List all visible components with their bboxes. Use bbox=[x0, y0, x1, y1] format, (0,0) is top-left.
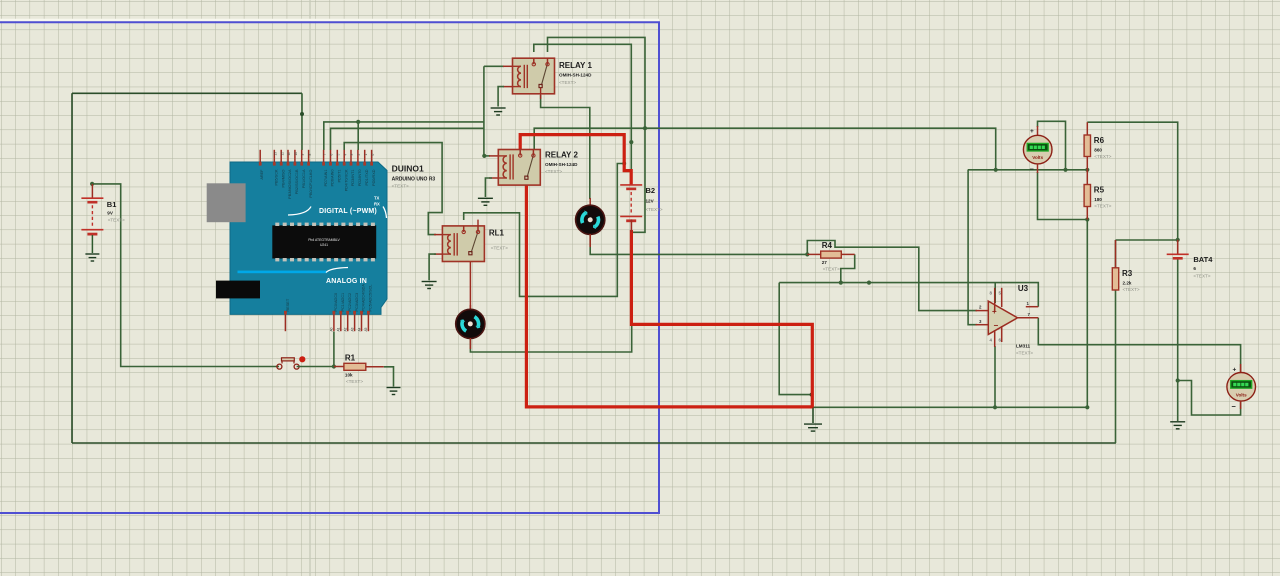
wire meter1 plus leg bbox=[1038, 121, 1066, 170]
svg-text:PD4/T0/XCK: PD4/T0/XCK bbox=[344, 169, 348, 191]
svg-text:PC4/ADC4/SDA: PC4/ADC4/SDA bbox=[362, 284, 366, 312]
svg-text:PB1/OC1A: PB1/OC1A bbox=[302, 169, 306, 188]
svg-text:A5: A5 bbox=[364, 327, 368, 331]
resistor R6 bbox=[1084, 135, 1090, 157]
svg-text:27: 27 bbox=[822, 260, 828, 265]
motor M2 bbox=[456, 309, 485, 338]
svg-text:Volts: Volts bbox=[1032, 155, 1043, 160]
wire R5 bottom vertical to gnd rail bbox=[1086, 220, 1088, 408]
svg-text:<TEXT>: <TEXT> bbox=[646, 207, 663, 212]
svg-text:6: 6 bbox=[330, 154, 334, 156]
R3 top pin bbox=[1115, 240, 1117, 268]
wire opamp pin1 net horizontal bbox=[779, 283, 1038, 307]
svg-text:Volts: Volts bbox=[1236, 392, 1247, 397]
svg-text:RX: RX bbox=[374, 202, 380, 207]
voltmeter2 bottom pin bbox=[1240, 401, 1242, 409]
wire opamp pin8 leg bbox=[994, 283, 996, 303]
svg-text:2.2k: 2.2k bbox=[1123, 280, 1132, 285]
svg-text:<TEXT>: <TEXT> bbox=[559, 80, 576, 85]
wire relay coil vertical at x484 bbox=[483, 66, 485, 156]
wire gnd rail horizontal bbox=[812, 406, 1087, 408]
motor M1 bbox=[570, 199, 611, 240]
svg-text:R4: R4 bbox=[822, 241, 833, 250]
voltmeter1 bottom pin bbox=[1037, 164, 1039, 173]
svg-text:PD2/INT0: PD2/INT0 bbox=[358, 170, 362, 187]
Arduino pin net tick labels bbox=[274, 152, 375, 332]
relay2 coil top pin stub bbox=[489, 155, 498, 157]
svg-text:<TEXT>: <TEXT> bbox=[1193, 274, 1210, 279]
junction R6/R5 bbox=[1085, 168, 1089, 172]
ground relay1 coil bbox=[491, 108, 506, 115]
ground B1 bbox=[85, 254, 99, 261]
svg-text:PB0/ICP1/CLKO: PB0/ICP1/CLKO bbox=[309, 169, 313, 197]
junction A0/button/R1 bbox=[332, 364, 336, 368]
svg-text:U3: U3 bbox=[1018, 284, 1029, 293]
svg-text:9V: 9V bbox=[107, 211, 114, 216]
junction meter2 minus bbox=[1176, 378, 1180, 382]
wire RL1 top pin zigzag to B2+ node bbox=[464, 164, 623, 297]
svg-text:0: 0 bbox=[371, 154, 375, 156]
junction green stub on red wire bbox=[622, 162, 626, 166]
svg-text:OMIH-SH-124D: OMIH-SH-124D bbox=[545, 162, 578, 167]
wire RL1 pole to motor2 bbox=[469, 256, 471, 310]
svg-text:A4: A4 bbox=[357, 327, 361, 331]
svg-text:LM311: LM311 bbox=[1016, 344, 1030, 349]
svg-text:R5: R5 bbox=[1094, 186, 1105, 195]
wire motor2 bottom to B2- rail bbox=[470, 326, 631, 352]
R5 top pin bbox=[1086, 170, 1088, 185]
svg-text:TX: TX bbox=[374, 196, 380, 201]
svg-text:DUINO1: DUINO1 bbox=[392, 164, 424, 174]
wire D2 up to D7 net bbox=[357, 122, 359, 150]
svg-text:860: 860 bbox=[1094, 148, 1102, 153]
battery BAT4 top pin bbox=[1177, 240, 1179, 255]
voltmeter VM2 bbox=[1227, 373, 1256, 402]
battery B1 top junction bbox=[90, 182, 94, 186]
relay1 coil top pin stub bbox=[503, 65, 513, 67]
ground BAT4 bbox=[1170, 422, 1185, 429]
battery B1 top pin bbox=[91, 184, 93, 198]
svg-text:−: − bbox=[1030, 165, 1035, 174]
svg-text:12: 12 bbox=[280, 152, 284, 156]
svg-text:RELAY 2: RELAY 2 bbox=[545, 151, 578, 160]
svg-text:5: 5 bbox=[337, 154, 341, 156]
wire R6 top to BAT4 bbox=[1087, 122, 1177, 240]
svg-text:<TEXT>: <TEXT> bbox=[108, 218, 125, 223]
wire relay2 coil pin bbox=[484, 155, 490, 157]
battery B1 bbox=[81, 198, 103, 234]
junction relay1 pinR / relay2NO rail bbox=[643, 126, 647, 130]
wire opamp pin3 vertical bbox=[968, 170, 977, 325]
ground main rail bbox=[804, 424, 822, 431]
border frame (blue) bbox=[0, 22, 659, 513]
resistor R4 bbox=[821, 251, 842, 258]
svg-text:PC2/ADC2: PC2/ADC2 bbox=[348, 293, 352, 312]
svg-text:PD3/INT1: PD3/INT1 bbox=[351, 170, 355, 187]
svg-text:B2: B2 bbox=[646, 186, 656, 195]
svg-text:PC5/ADC5/SCL: PC5/ADC5/SCL bbox=[369, 284, 373, 311]
relay2 coil bottom pin stub bbox=[489, 177, 498, 179]
svg-text:10k: 10k bbox=[345, 372, 353, 377]
svg-text:<TEXT>: <TEXT> bbox=[346, 379, 363, 384]
svg-text:A3: A3 bbox=[350, 327, 354, 331]
wire D9 net top horizontal bbox=[72, 92, 302, 94]
svg-text:8: 8 bbox=[308, 154, 312, 156]
RL1 pin2 stub bbox=[477, 220, 479, 226]
svg-text:−: − bbox=[1232, 402, 1237, 411]
svg-text:180: 180 bbox=[1094, 197, 1102, 202]
voltmeter2 top pin bbox=[1240, 364, 1242, 372]
svg-text:6: 6 bbox=[1193, 266, 1196, 271]
svg-text:7: 7 bbox=[323, 154, 327, 156]
op-amp U3 power pin stubs bbox=[995, 288, 1002, 347]
svg-text:Pb4 ATEGTRAMBLV: Pb4 ATEGTRAMBLV bbox=[308, 238, 340, 242]
svg-text:12V: 12V bbox=[646, 199, 655, 204]
wire D6 to relay coils bbox=[331, 128, 484, 150]
svg-text:BAT4: BAT4 bbox=[1193, 255, 1213, 264]
svg-text:<TEXT>: <TEXT> bbox=[491, 246, 508, 251]
svg-text:11: 11 bbox=[287, 152, 291, 156]
junction on D9 wire bbox=[300, 112, 304, 116]
wire R4 right zigzag bbox=[841, 254, 855, 282]
motor1 bottom pin bbox=[589, 234, 591, 247]
Arduino board DUINO1 bbox=[230, 162, 387, 314]
RL1 coil top pin stub bbox=[434, 234, 442, 236]
svg-text:3: 3 bbox=[350, 154, 354, 156]
wire R4 bypass to opamp pin2 bbox=[807, 241, 977, 311]
junction on relay1 pinL wire bbox=[629, 140, 633, 144]
wire motor1 bottom to R4 bbox=[590, 235, 807, 255]
svg-text:PB2/SS/OC1B: PB2/SS/OC1B bbox=[295, 169, 299, 194]
junction R4 right on net bbox=[839, 281, 843, 285]
push button SW bbox=[277, 356, 306, 369]
relay RELAY1 bbox=[513, 58, 555, 94]
wire B1 plus to push button bbox=[92, 184, 279, 367]
R6 top pin bbox=[1086, 122, 1088, 135]
svg-text:ANALOG IN: ANALOG IN bbox=[326, 278, 367, 285]
svg-text:<TEXT>: <TEXT> bbox=[1094, 204, 1111, 209]
svg-text:R6: R6 bbox=[1094, 136, 1105, 145]
wire relay1 coil top bbox=[484, 65, 504, 67]
svg-text:PD6/AIN0: PD6/AIN0 bbox=[331, 170, 335, 187]
wire D4 to RL1 coil bbox=[344, 143, 442, 235]
relay RELAY2 bbox=[498, 150, 540, 186]
battery B2 top pin bbox=[630, 172, 632, 185]
junction R4 left bbox=[805, 252, 809, 256]
wire relay1 pinL loop bbox=[534, 44, 632, 170]
R1 right pin bbox=[366, 366, 384, 368]
relay1 pole pin bbox=[540, 88, 542, 100]
svg-text:ARDUINO UNO R3: ARDUINO UNO R3 bbox=[392, 177, 436, 183]
ground RL1 coil bbox=[422, 282, 437, 289]
svg-text:AREF: AREF bbox=[260, 169, 264, 180]
battery B1 bottom stem bbox=[91, 235, 93, 253]
svg-text:DIGITAL (~PWM): DIGITAL (~PWM) bbox=[319, 208, 377, 215]
svg-text:10: 10 bbox=[294, 152, 298, 156]
svg-text:PB3/MOSI/OC2A: PB3/MOSI/OC2A bbox=[288, 169, 292, 199]
svg-text:A1: A1 bbox=[337, 327, 341, 331]
junction pin1 net on red wire bbox=[810, 393, 814, 397]
svg-text:R1: R1 bbox=[345, 353, 356, 362]
sheet divider line bbox=[309, 0, 311, 576]
ground R1 bbox=[387, 388, 401, 395]
junction R5 vert on gnd rail bbox=[1085, 405, 1089, 409]
junction BAT4 plus bbox=[1176, 238, 1180, 242]
op-amp U3 input pins bbox=[976, 307, 1039, 325]
wire D7 to relay coils bbox=[324, 122, 484, 150]
svg-text:PC0/ADC0: PC0/ADC0 bbox=[334, 293, 338, 312]
R4 left pin bbox=[807, 253, 820, 255]
svg-text:−: − bbox=[994, 321, 999, 330]
relay RL1 bbox=[442, 226, 484, 262]
wire bottom long horizontal to R3 bbox=[72, 442, 1116, 444]
op-amp U3 body bbox=[988, 301, 1017, 334]
svg-text:PD7/AIN1: PD7/AIN1 bbox=[324, 170, 328, 187]
svg-text:U241: U241 bbox=[320, 243, 328, 247]
svg-text:R3: R3 bbox=[1122, 269, 1133, 278]
wire RL1 coil bottom to ground bbox=[429, 254, 436, 280]
wire relay2 coil bottom to ground bbox=[485, 178, 492, 197]
wire relay1 pole to motor1 bbox=[541, 95, 590, 199]
wire button to R1 bbox=[297, 366, 334, 368]
svg-text:PC3/ADC3: PC3/ADC3 bbox=[355, 293, 359, 312]
svg-text:OMIH-SH-124D: OMIH-SH-124D bbox=[559, 73, 592, 78]
svg-text:<TEXT>: <TEXT> bbox=[392, 184, 409, 189]
svg-text:9: 9 bbox=[301, 154, 305, 156]
svg-text:1: 1 bbox=[364, 154, 368, 156]
battery B2 bottom pin bbox=[630, 219, 632, 232]
svg-text:B1: B1 bbox=[107, 200, 117, 209]
wire D9 drop to Arduino pin bbox=[301, 93, 303, 150]
R5 bottom pin bbox=[1086, 207, 1088, 220]
battery B2 bbox=[620, 185, 642, 221]
wire opamp pin4 leg bbox=[994, 346, 996, 407]
svg-text:A2: A2 bbox=[344, 327, 348, 331]
svg-text:13: 13 bbox=[274, 152, 278, 156]
wire R3 top to BAT4 dot bbox=[1116, 239, 1178, 241]
wire BAT4 minus vertical bbox=[1177, 258, 1179, 421]
voltmeter1 top pin bbox=[1037, 126, 1039, 135]
red wire B2- to rail bbox=[631, 230, 812, 408]
junction relay2 coil bbox=[482, 154, 486, 158]
resistor R1 bbox=[344, 363, 366, 370]
svg-text:+: + bbox=[1030, 128, 1034, 135]
svg-text:+: + bbox=[1233, 367, 1237, 374]
R1 left pin bbox=[334, 366, 344, 368]
svg-text:PD5/T1: PD5/T1 bbox=[338, 170, 342, 183]
svg-text:RL1: RL1 bbox=[489, 229, 505, 238]
junction D2/D7 bbox=[356, 120, 360, 124]
svg-text:RELAY 1: RELAY 1 bbox=[559, 61, 592, 70]
junction relay2NO rail at R5 line bbox=[994, 168, 998, 172]
motor1 top pin bbox=[589, 198, 591, 206]
red wire relay2 top to B2+ bbox=[520, 135, 631, 185]
svg-text:PD1/TXD: PD1/TXD bbox=[365, 169, 369, 185]
ground relay2 coil bbox=[478, 198, 493, 205]
svg-text:PD0/RXD: PD0/RXD bbox=[372, 169, 376, 186]
motor2 bottom pin bbox=[469, 338, 471, 349]
svg-text:<TEXT>: <TEXT> bbox=[545, 169, 562, 174]
svg-text:4: 4 bbox=[343, 154, 347, 156]
junction second on pin1 net bbox=[867, 281, 871, 285]
wire meter2 minus zigzag bbox=[1178, 381, 1241, 416]
svg-text:<TEXT>: <TEXT> bbox=[823, 267, 840, 272]
svg-text:<TEXT>: <TEXT> bbox=[1123, 287, 1140, 292]
junction R5 bottom bbox=[1085, 217, 1089, 221]
R4 right pin bbox=[841, 253, 854, 255]
junction opamp pin4 on gnd rail bbox=[993, 405, 997, 409]
Arduino pin name labels bbox=[260, 169, 376, 312]
resistor R3 bbox=[1112, 268, 1118, 290]
svg-text:A0: A0 bbox=[330, 327, 334, 331]
Arduino header pins bbox=[260, 150, 371, 331]
wire A0 down to junction bbox=[333, 332, 335, 367]
border frame highlight bbox=[0, 19, 659, 21]
svg-text:PC1/ADC1: PC1/ADC1 bbox=[341, 293, 345, 312]
svg-text:2: 2 bbox=[357, 154, 361, 156]
wire meter1 minus to R5 bottom bbox=[1038, 172, 1088, 220]
op-amp U3 pin numbers bbox=[979, 291, 1031, 343]
wire meters R5R6 horizontal bbox=[968, 169, 1088, 171]
svg-text:<TEXT>: <TEXT> bbox=[1094, 154, 1111, 159]
R6 bottom pin bbox=[1086, 157, 1088, 170]
wire R1 to ground bbox=[384, 367, 394, 387]
voltmeter VM1 bbox=[1023, 135, 1052, 164]
svg-text:RESET: RESET bbox=[286, 298, 290, 311]
wire pin1 net drop to red rail bbox=[779, 283, 811, 395]
wire D9 net left vertical bbox=[71, 93, 73, 443]
junction meter1+ leg bbox=[1063, 168, 1067, 172]
wire relay1 pinR loop bbox=[548, 37, 646, 232]
wire R3 pins vertical bbox=[1115, 240, 1117, 443]
svg-text:<TEXT>: <TEXT> bbox=[1016, 351, 1033, 356]
resistor R5 bbox=[1084, 185, 1090, 207]
svg-text:PB5/SCK: PB5/SCK bbox=[275, 169, 279, 186]
battery BAT4 bbox=[1167, 254, 1189, 258]
red wire relay2 pole to gnd rail corner bbox=[526, 183, 812, 407]
wire relay1 coil bottom to ground bbox=[498, 87, 504, 107]
wire gnd stub bbox=[812, 407, 814, 423]
wire opamp pin7 to meter2 plus bbox=[1038, 318, 1240, 373]
RL1 coil bottom pin stub bbox=[434, 253, 442, 255]
wire relay2 NO rail bbox=[534, 128, 996, 170]
relay1 coil bottom pin stub bbox=[503, 86, 513, 88]
svg-text:PB4/MISO: PB4/MISO bbox=[281, 169, 285, 187]
motor2 top pin bbox=[469, 305, 471, 310]
